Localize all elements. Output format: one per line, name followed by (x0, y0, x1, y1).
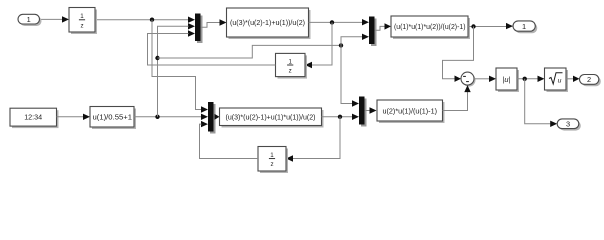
wire Abs output to Sqrt (517, 76, 545, 82)
wire DigitalClock to Fcn4 (57, 114, 91, 120)
wire Mux3 input3 arrow (201, 121, 208, 127)
sum block Sum (461, 72, 476, 87)
output port Out3 (557, 119, 581, 131)
svg-text:(u(3)*(u(2)-1)+u(1)*u(1))/u(2): (u(3)*(u(2)-1)+u(1)*u(1))/u(2) (226, 114, 316, 121)
unit delay UnitDelay3 flipped (258, 147, 288, 174)
junction D4 (339, 43, 343, 47)
wire D7 down to UnitDelay3 input (286, 117, 340, 162)
wire Mux1 input3 arrow (188, 30, 195, 36)
wire D5 down to Sum left input (443, 27, 474, 82)
junction D7 on Fcn3 output (338, 115, 342, 119)
wire D6 down to Out3 (525, 79, 558, 127)
svg-text:u(1)/0.55+1: u(1)/0.55+1 (93, 114, 133, 121)
mux Mux2 (369, 17, 377, 47)
mux Mux4 (359, 97, 367, 127)
wire Fcn2 output to Out1 (468, 23, 513, 29)
wire Fcn1 output to Mux2 input1 (309, 19, 370, 25)
wire Sqrt output to Out2 (566, 76, 580, 82)
wire UnitDelay2 output to Mux1 input3 (148, 34, 276, 66)
svg-text:12:34: 12:34 (24, 113, 42, 122)
wire Mux4 output to Fcn5 (365, 107, 377, 113)
svg-text:1: 1 (288, 58, 292, 65)
wire Mux3 output to Fcn3 (214, 114, 220, 120)
svg-text:1: 1 (522, 22, 526, 31)
mux Mux1 (195, 14, 203, 44)
wire D4 up to Mux2 input2 (341, 34, 369, 46)
svg-text:z: z (289, 68, 292, 75)
svg-text:1: 1 (27, 15, 31, 24)
output port Out2 (580, 75, 601, 87)
clock block DigitalClock (10, 108, 59, 128)
wire In1 to UnitDelay1 (40, 16, 70, 22)
wire Sum output to Abs (474, 76, 496, 82)
wire D4 down to Mux4 input1 (341, 45, 359, 106)
svg-text:1: 1 (270, 152, 274, 159)
wire J1 down to Mux3 input1 (152, 20, 208, 113)
fcn block Fcn2 (391, 16, 470, 39)
wire Mux1 output to Fcn1 (201, 19, 227, 27)
fcn block Fcn4 (90, 107, 136, 130)
svg-text:3: 3 (566, 120, 570, 129)
svg-text:z: z (80, 22, 83, 29)
fcn block Fcn3 (220, 108, 324, 128)
svg-text:(u(1)*u(1)*u(2))/(u(2)-1): (u(1)*u(1)*u(2))/(u(2)-1) (394, 24, 466, 31)
svg-text:1: 1 (80, 13, 84, 20)
junction D3 on clock riser (155, 56, 159, 60)
input port In1 (18, 14, 42, 26)
wire UnitDelay1 to Mux1 input1 (95, 17, 195, 23)
fcn block Fcn5 (377, 100, 445, 123)
wire Fcn3 output to Mux4 input2 (322, 114, 360, 120)
svg-text:(u(3)*(u(2)-1)+u(1))/u(2): (u(3)*(u(2)-1)+u(1))/u(2) (230, 20, 305, 27)
abs block Abs (496, 68, 519, 92)
wire Mux1 input2 arrow (188, 23, 195, 29)
output port Out1 (513, 21, 537, 33)
mux Mux3 (208, 102, 216, 134)
junction D1 on Fcn1 output (330, 20, 334, 24)
wire Fcn5 output up to Sum bottom input (443, 85, 471, 110)
junction D6 after Abs (523, 77, 527, 81)
wire Mux2 output to Fcn2 (375, 23, 392, 30)
junction D2 on clock signal (155, 115, 159, 119)
junction D5 on Fcn2 output (471, 24, 475, 28)
svg-text:u(2)*u(1)/(u(1)-1): u(2)*u(1)/(u(1)-1) (383, 108, 438, 115)
svg-text:|u|: |u| (503, 75, 511, 84)
wire UnitDelay3 output to Mux3 input3 (200, 124, 259, 158)
svg-text:u: u (558, 78, 562, 85)
sqrt block Sqrt (545, 68, 569, 92)
wire Fcn4 output to Mux3 input2 (134, 114, 208, 120)
unit delay UnitDelay1 (69, 8, 97, 35)
junction J1 on UnitDelay1 output (150, 18, 154, 22)
wire D1 down to UnitDelay2 input (305, 22, 332, 68)
svg-text:2: 2 (587, 75, 591, 84)
fcn block Fcn1 (227, 8, 311, 39)
unit delay UnitDelay2 flipped (276, 53, 308, 78)
wire D2 up to Mux1 input2 (158, 26, 189, 117)
svg-text:z: z (270, 161, 273, 168)
wire D3 right to junction D4 (158, 45, 342, 58)
